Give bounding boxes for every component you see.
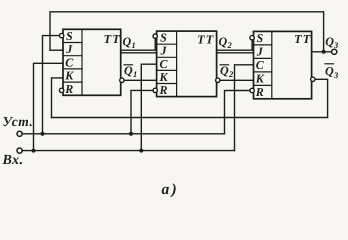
wire S1 from Ust bus bbox=[43, 36, 60, 134]
node label Q2 bbox=[219, 35, 233, 51]
wire Ust bus bbox=[22, 133, 225, 135]
svg-text:R: R bbox=[255, 85, 264, 99]
node label Q1 bbox=[123, 35, 136, 51]
junction dot S1/Ust bbox=[41, 132, 45, 136]
svg-text:а): а) bbox=[162, 181, 179, 198]
svg-text:C: C bbox=[65, 55, 74, 69]
svg-text:Q: Q bbox=[220, 64, 229, 78]
wire Q2 to J3 bbox=[217, 52, 254, 54]
svg-text:Вх.: Вх. bbox=[2, 153, 24, 168]
inversion bubble S input U3 bbox=[250, 36, 254, 40]
terminal Q3 bbox=[332, 49, 337, 54]
junction dot Q3/top-bus bbox=[322, 50, 326, 54]
node label Q2bar bbox=[220, 64, 234, 80]
inversion bubble R input U3 bbox=[250, 88, 254, 92]
svg-text:Q: Q bbox=[325, 35, 334, 49]
wire top feedback bus Q3 to J1 bbox=[50, 12, 324, 52]
svg-text:J: J bbox=[256, 44, 264, 58]
wire R3 from Ust bus bbox=[225, 91, 250, 134]
wire Q1 to S2 bubble bbox=[121, 38, 156, 50]
inversion bubble Q3bar output U3 bbox=[311, 77, 315, 81]
svg-text:J: J bbox=[65, 42, 73, 56]
junction dot C2/Vx bbox=[139, 149, 143, 153]
inversion bubble Q1bar output U1 bbox=[120, 78, 124, 82]
flip-flop U1 box bbox=[63, 29, 121, 95]
svg-text:S: S bbox=[160, 31, 167, 45]
inversion bubble S input U2 bbox=[153, 34, 157, 38]
terminal Vx bbox=[17, 148, 22, 153]
junction dot R2/Ust bbox=[129, 132, 133, 136]
svg-text:Q: Q bbox=[325, 64, 334, 78]
wire bottom feedback bus Q3bar to K1 bbox=[52, 79, 328, 117]
svg-text:K: K bbox=[158, 70, 168, 84]
svg-text:Q: Q bbox=[124, 64, 133, 78]
svg-text:J: J bbox=[160, 44, 168, 58]
wire Q2 to S3 bubble bbox=[217, 40, 253, 50]
svg-text:K: K bbox=[255, 71, 265, 85]
svg-text:Уст.: Уст. bbox=[3, 114, 34, 129]
junction dot C1/Vx bbox=[32, 149, 36, 153]
svg-text:3: 3 bbox=[333, 70, 339, 80]
wire Q1bar to K2 bbox=[124, 79, 157, 81]
svg-text:2: 2 bbox=[228, 69, 234, 79]
svg-text:TT: TT bbox=[104, 32, 121, 46]
svg-text:C: C bbox=[256, 58, 265, 72]
wire C1 from Vx bus bbox=[34, 63, 64, 150]
svg-text:Q: Q bbox=[219, 35, 228, 49]
terminal Ust bbox=[17, 131, 22, 136]
svg-text:2: 2 bbox=[227, 40, 233, 50]
inversion bubble Q2bar output U2 bbox=[216, 78, 220, 82]
wire Q1 to J2 bbox=[121, 52, 157, 54]
svg-text:1: 1 bbox=[133, 69, 137, 79]
inversion bubble R input U2 bbox=[153, 88, 157, 92]
svg-text:K: K bbox=[64, 69, 74, 83]
wire Q3 output bbox=[312, 51, 332, 53]
svg-text:TT: TT bbox=[294, 32, 311, 46]
wire J1 input jog bbox=[50, 49, 63, 51]
inversion bubble S input U1 bbox=[59, 33, 63, 37]
node label Q3 bbox=[325, 35, 339, 51]
inversion bubble R input U1 bbox=[59, 88, 63, 92]
node label Q1bar bbox=[124, 64, 137, 80]
svg-text:3: 3 bbox=[333, 40, 339, 50]
flip-flop U2 box bbox=[157, 31, 217, 97]
wire K1 drop bbox=[52, 78, 64, 118]
wire R2 from Ust bus bbox=[131, 90, 153, 133]
svg-text:1: 1 bbox=[132, 40, 136, 50]
wire Q2bar to K3 bbox=[220, 79, 254, 81]
wire Vx bus bbox=[22, 150, 235, 152]
wire C3 from Vx bus bbox=[235, 65, 254, 151]
svg-text:TT: TT bbox=[197, 32, 214, 46]
svg-text:S: S bbox=[256, 31, 263, 45]
svg-text:R: R bbox=[158, 83, 167, 97]
node label Q3bar bbox=[325, 64, 339, 80]
svg-text:S: S bbox=[66, 29, 73, 43]
svg-text:Q: Q bbox=[123, 35, 132, 49]
svg-text:C: C bbox=[159, 57, 168, 71]
svg-text:R: R bbox=[64, 82, 73, 96]
wire C2 from Vx bus bbox=[141, 64, 156, 150]
flip-flop U3 box bbox=[254, 31, 312, 98]
